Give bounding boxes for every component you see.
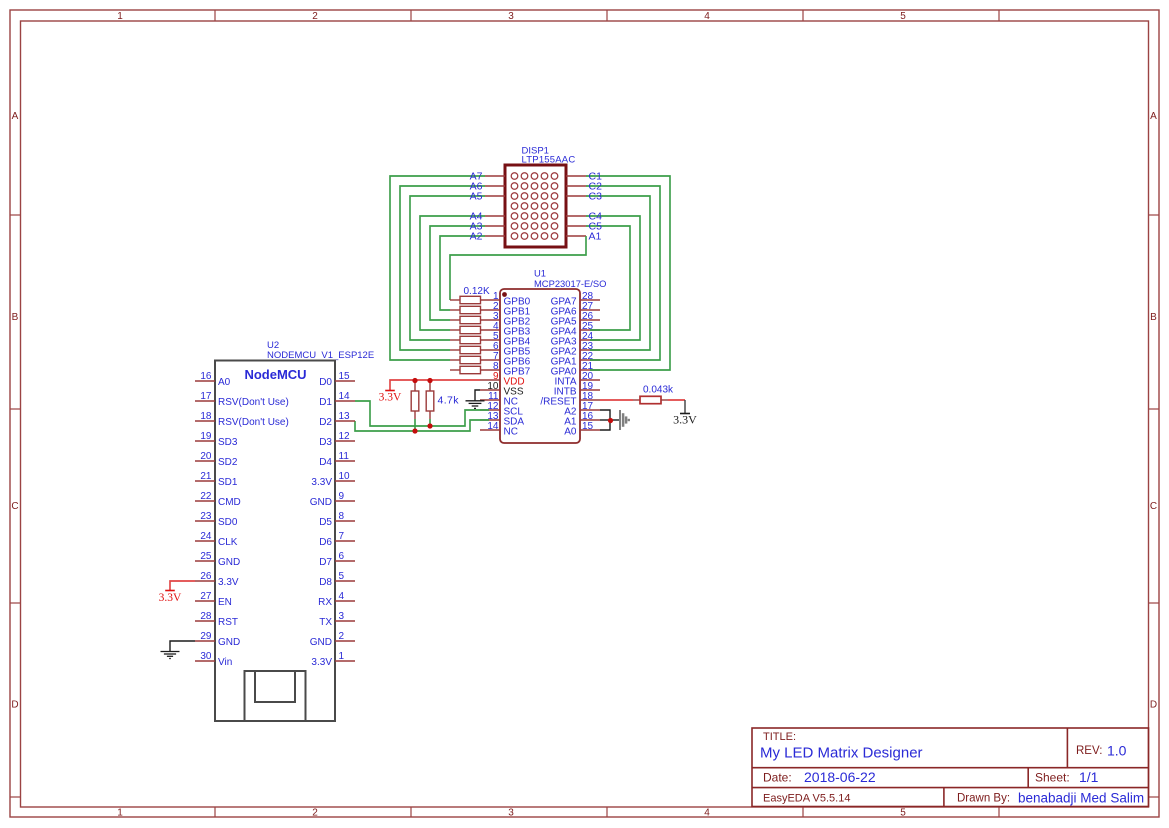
wires A2 A1 A0 tied — [600, 410, 610, 430]
svg-text:Date:: Date: — [763, 771, 792, 785]
U2 pin 17 RSV(Don't Use) — [195, 400, 215, 402]
resistor R7 0.12K (pin 7) — [450, 359, 460, 361]
DISP1 pin A1 — [566, 235, 586, 237]
svg-text:8: 8 — [339, 511, 345, 522]
svg-text:0.043k: 0.043k — [643, 385, 674, 396]
wire SDA: U2 D2 to U1 SDA — [355, 420, 489, 431]
svg-text:NC: NC — [504, 427, 518, 438]
resistor R4 0.12K (pin 4) — [450, 329, 460, 331]
svg-text:27: 27 — [200, 591, 212, 602]
svg-text:C3: C3 — [589, 191, 603, 203]
svg-text:B: B — [1150, 312, 1157, 323]
U2 pin 5 D8 — [335, 580, 355, 582]
U1 pin 1 GPB0 — [480, 299, 500, 301]
sideways ground symbol (A0-A2) — [619, 410, 621, 430]
svg-text:3.3V: 3.3V — [159, 592, 182, 604]
ground symbol (VSS) — [466, 400, 485, 402]
svg-text:NODEMCU_V1_ESP12E: NODEMCU_V1_ESP12E — [267, 350, 374, 361]
svg-text:RX: RX — [318, 597, 332, 608]
wire net A3 from DISP1 to resistor — [430, 226, 485, 320]
svg-text:3.3V: 3.3V — [311, 477, 332, 488]
svg-text:9: 9 — [339, 491, 345, 502]
U1 pin 5 GPB4 — [480, 339, 500, 341]
svg-text:RSV(Don't Use): RSV(Don't Use) — [218, 397, 289, 408]
svg-text:5: 5 — [339, 571, 345, 582]
U2 pin 13 D2 — [335, 420, 355, 422]
wire overlap on U1 right pin — [590, 359, 600, 361]
U2 USB connector inner — [255, 671, 295, 702]
svg-text:SD3: SD3 — [218, 437, 238, 448]
DISP1 pin C2 — [566, 185, 586, 187]
svg-text:29: 29 — [200, 631, 212, 642]
svg-text:Drawn By:: Drawn By: — [957, 793, 1010, 805]
ruler row ticks — [10, 214, 21, 216]
svg-text:1: 1 — [117, 11, 123, 22]
U2 pin 30 Vin — [195, 660, 215, 662]
DISP1 pin A6 — [485, 185, 505, 187]
svg-text:5: 5 — [900, 11, 906, 22]
svg-text:7: 7 — [339, 531, 345, 542]
svg-text:B: B — [12, 312, 19, 323]
svg-text:20: 20 — [200, 451, 212, 462]
U2 pin 14 D1 — [335, 400, 355, 402]
svg-text:14: 14 — [339, 391, 351, 402]
module U2 body — [215, 361, 335, 722]
U2 pin 12 D3 — [335, 440, 355, 442]
ruler column ticks — [214, 10, 216, 21]
U1 pin 19 INTB — [580, 389, 600, 391]
U1 pin 22 GPA1 — [580, 359, 600, 361]
U2 pin 6 D7 — [335, 560, 355, 562]
U1 pin 15 A0 — [580, 429, 600, 431]
U1 pin 12 SCL — [480, 409, 500, 411]
junction dot SCL — [427, 423, 432, 428]
DISP1 pin A7 — [485, 175, 505, 177]
junction dot A1 net — [608, 418, 613, 423]
U1 pin 21 GPA0 — [580, 369, 600, 371]
svg-text:RST: RST — [218, 617, 238, 628]
wire net A6 from DISP1 to resistor — [400, 186, 485, 350]
resistor R6 0.12K (pin 6) — [450, 349, 460, 351]
U2 pin 2 GND — [335, 640, 355, 642]
wire net A5 from DISP1 to resistor — [410, 196, 485, 340]
svg-text:14: 14 — [487, 421, 499, 432]
wire net C1 from DISP1 to U1 — [586, 176, 670, 370]
U2 pin 24 CLK — [195, 540, 215, 542]
svg-text:SD2: SD2 — [218, 457, 238, 468]
U2 pin 23 SD0 — [195, 520, 215, 522]
resistor R_sda 4.7k — [414, 381, 416, 391]
U1 pin1 dot — [502, 292, 507, 297]
svg-text:Sheet:: Sheet: — [1035, 771, 1070, 785]
svg-text:4.7k: 4.7k — [438, 395, 460, 407]
svg-text:4: 4 — [339, 591, 345, 602]
svg-text:A1: A1 — [589, 231, 602, 243]
U2 pin 21 SD1 — [195, 480, 215, 482]
svg-text:My LED Matrix Designer: My LED Matrix Designer — [760, 745, 923, 762]
U2 pin 9 GND — [335, 500, 355, 502]
svg-text:12: 12 — [339, 431, 351, 442]
ground symbol (U2) — [161, 651, 180, 653]
svg-text:16: 16 — [200, 371, 212, 382]
svg-text:SD1: SD1 — [218, 477, 238, 488]
svg-text:GND: GND — [218, 637, 240, 648]
svg-text:A: A — [1150, 111, 1157, 122]
U1 pin 18 /RESET — [580, 399, 600, 401]
resistor R8 0.12K (pin 8) — [450, 369, 460, 371]
svg-text:A: A — [12, 111, 19, 122]
U1 pin 26 GPA5 — [580, 319, 600, 321]
U2 pin 20 SD2 — [195, 460, 215, 462]
U1 pin 17 A2 — [580, 409, 600, 411]
svg-text:17: 17 — [200, 391, 212, 402]
junction dots on 3.3V rail — [412, 378, 417, 383]
U1 pin 14 NC — [480, 429, 500, 431]
U2 pin 19 SD3 — [195, 440, 215, 442]
svg-text:benabadji Med Salim: benabadji Med Salim — [1018, 791, 1144, 806]
svg-text:C: C — [11, 501, 18, 512]
svg-text:D2: D2 — [319, 417, 332, 428]
power flag 3.3V (left of 4.7k) — [385, 390, 395, 392]
svg-text:TX: TX — [319, 617, 332, 628]
svg-text:5: 5 — [900, 808, 906, 819]
svg-text:D0: D0 — [319, 377, 332, 388]
svg-text:GND: GND — [310, 497, 332, 508]
svg-text:2: 2 — [312, 808, 318, 819]
svg-text:D7: D7 — [319, 557, 332, 568]
svg-text:TITLE:: TITLE: — [763, 731, 796, 743]
svg-text:3.3V: 3.3V — [311, 657, 332, 668]
U1 pin 7 GPB6 — [480, 359, 500, 361]
svg-text:Vin: Vin — [218, 657, 232, 668]
svg-text:1: 1 — [117, 808, 123, 819]
svg-text:D: D — [1150, 699, 1157, 710]
svg-text:2: 2 — [312, 11, 318, 22]
wire sda resistor to bus — [414, 419, 416, 431]
U1 pin 24 GPA3 — [580, 339, 600, 341]
svg-text:24: 24 — [200, 531, 212, 542]
U2 pin 8 D5 — [335, 520, 355, 522]
wire overlap on U1 right pin — [590, 369, 600, 371]
U2 pin 16 A0 — [195, 380, 215, 382]
svg-text:2: 2 — [339, 631, 345, 642]
U1 pin 16 A1 — [580, 419, 600, 421]
resistor R3 0.12K (pin 3) — [450, 319, 460, 321]
svg-text:SD0: SD0 — [218, 517, 238, 528]
svg-text:10: 10 — [339, 471, 351, 482]
DISP1 pin C3 — [566, 195, 586, 197]
DISP1 pin C4 — [566, 215, 586, 217]
U1 pin 11 NC — [480, 399, 500, 401]
svg-text:3: 3 — [508, 11, 514, 22]
U2 pin 28 RST — [195, 620, 215, 622]
svg-text:D6: D6 — [319, 537, 332, 548]
wire net A1 from DISP1 to resistor — [450, 236, 586, 300]
IC U1 body — [500, 289, 580, 443]
svg-text:A5: A5 — [470, 191, 483, 203]
U2 pin 4 RX — [335, 600, 355, 602]
svg-text:MCP23017-E/SO: MCP23017-E/SO — [534, 278, 606, 289]
svg-text:3: 3 — [339, 611, 345, 622]
U1 pin 27 GPA6 — [580, 309, 600, 311]
svg-text:D8: D8 — [319, 577, 332, 588]
svg-text:GND: GND — [310, 637, 332, 648]
U1 pin 25 GPA4 — [580, 329, 600, 331]
wire net A2 from DISP1 to resistor — [440, 236, 485, 310]
wire net A4 from DISP1 to resistor — [420, 216, 485, 330]
net flag 3.3V (black) — [684, 400, 686, 413]
svg-text:1.0: 1.0 — [1107, 743, 1127, 759]
svg-text:D3: D3 — [319, 437, 332, 448]
svg-text:D5: D5 — [319, 517, 332, 528]
U2 pin 10 3.3V — [335, 480, 355, 482]
svg-text:0.12K: 0.12K — [464, 286, 490, 297]
DISP1 pin C5 — [566, 225, 586, 227]
svg-text:CLK: CLK — [218, 537, 238, 548]
U1 pin 4 GPB3 — [480, 329, 500, 331]
LED matrix DISP1 body — [505, 165, 566, 247]
svg-text:RSV(Don't Use): RSV(Don't Use) — [218, 417, 289, 428]
svg-text:3: 3 — [508, 808, 514, 819]
U2 pin 15 D0 — [335, 380, 355, 382]
wire net C4 from DISP1 to U1 — [586, 216, 640, 340]
svg-text:CMD: CMD — [218, 497, 241, 508]
svg-text:REV:: REV: — [1076, 745, 1102, 757]
DISP1 LED circles — [511, 173, 558, 240]
U1 pin 3 GPB2 — [480, 319, 500, 321]
resistor R_rst 0.043k — [633, 399, 640, 401]
U2 pin 29 GND — [195, 640, 215, 642]
svg-text:25: 25 — [200, 551, 212, 562]
U1 pin 13 SDA — [480, 419, 500, 421]
U2 pin 25 GND — [195, 560, 215, 562]
wire 3.3V to U2 pin 26 — [170, 581, 195, 590]
U2 pin 18 RSV(Don't Use) — [195, 420, 215, 422]
svg-text:D4: D4 — [319, 457, 332, 468]
svg-text:15: 15 — [339, 371, 351, 382]
U2 pin 22 CMD — [195, 500, 215, 502]
wire net A7 from DISP1 to resistor — [390, 176, 485, 360]
svg-text:EasyEDA V5.5.14: EasyEDA V5.5.14 — [763, 793, 850, 805]
U1 pin 23 GPA2 — [580, 349, 600, 351]
wire overlap on U1 right pin — [590, 339, 600, 341]
U1 pin 8 GPB7 — [480, 369, 500, 371]
svg-text:2018-06-22: 2018-06-22 — [804, 769, 876, 785]
svg-text:3.3V: 3.3V — [218, 577, 239, 588]
svg-text:23: 23 — [200, 511, 212, 522]
svg-text:C: C — [1150, 501, 1157, 512]
wire net C3 from DISP1 to U1 — [586, 196, 650, 350]
U2 pin 1 3.3V — [335, 660, 355, 662]
junction dot SDA — [412, 428, 417, 433]
svg-text:13: 13 — [339, 411, 351, 422]
title block frame — [752, 728, 1149, 807]
svg-text:D: D — [11, 699, 18, 710]
U2 pin 27 EN — [195, 600, 215, 602]
resistor R2 0.12K (pin 2) — [450, 309, 460, 311]
wire GND to U2 pin 29 — [170, 641, 195, 651]
wire net C2 from DISP1 to U1 — [586, 186, 660, 360]
DISP1 pin A3 — [485, 225, 505, 227]
U1 pin 10 VSS — [480, 389, 500, 391]
svg-text:28: 28 — [200, 611, 212, 622]
svg-text:18: 18 — [200, 411, 212, 422]
U2 pin 7 D6 — [335, 540, 355, 542]
wire overlap on U1 right pin — [590, 329, 600, 331]
U2 pin 11 D4 — [335, 460, 355, 462]
svg-text:15: 15 — [582, 421, 594, 432]
U2 pin 3 TX — [335, 620, 355, 622]
svg-text:19: 19 — [200, 431, 212, 442]
svg-text:A2: A2 — [470, 231, 483, 243]
U1 pin 2 GPB1 — [480, 309, 500, 311]
DISP1 pin A5 — [485, 195, 505, 197]
svg-text:3.3V: 3.3V — [673, 413, 697, 427]
wire resistor to 3.3V flag — [668, 399, 685, 401]
U1 pin 28 GPA7 — [580, 299, 600, 301]
svg-text:1/1: 1/1 — [1079, 769, 1099, 785]
U2 USB connector outer — [245, 671, 306, 721]
svg-text:30: 30 — [200, 651, 212, 662]
resistor R_scl 4.7k — [429, 381, 431, 391]
DISP1 pin C1 — [566, 175, 586, 177]
svg-text:GND: GND — [218, 557, 240, 568]
resistor R1 0.12K (pin 1) — [450, 299, 460, 301]
svg-text:A0: A0 — [218, 377, 231, 388]
svg-text:D1: D1 — [319, 397, 332, 408]
wire overlap on U1 right pin — [590, 349, 600, 351]
svg-text:3.3V: 3.3V — [379, 392, 402, 404]
svg-text:11: 11 — [339, 451, 350, 462]
U1 pin 6 GPB5 — [480, 349, 500, 351]
svg-text:26: 26 — [200, 571, 212, 582]
wire SCL: U2 D1 to U1 SCL — [355, 401, 489, 426]
DISP1 pin A2 — [485, 235, 505, 237]
power flag 3.3V (U2) — [165, 590, 175, 592]
svg-text:4: 4 — [704, 11, 710, 22]
U1 pin 20 INTA — [580, 379, 600, 381]
resistor R5 0.12K (pin 5) — [450, 339, 460, 341]
svg-text:21: 21 — [200, 471, 212, 482]
wire scl resistor to bus — [429, 419, 431, 426]
DISP1 pin A4 — [485, 215, 505, 217]
svg-text:4: 4 — [704, 808, 710, 819]
svg-text:1: 1 — [339, 651, 345, 662]
svg-text:6: 6 — [339, 551, 345, 562]
svg-text:22: 22 — [200, 491, 212, 502]
svg-text:A0: A0 — [564, 427, 577, 438]
wire net C5 from DISP1 to U1 — [586, 226, 630, 330]
wire VSS to ground — [475, 390, 480, 401]
U1 pin 9 VDD — [480, 379, 500, 381]
power net 3.3V wire to VDD — [390, 380, 480, 390]
svg-text:NodeMCU: NodeMCU — [244, 367, 306, 382]
U2 pin 26 3.3V — [195, 580, 215, 582]
wire /RESET to resistor — [600, 399, 633, 401]
svg-text:EN: EN — [218, 597, 232, 608]
